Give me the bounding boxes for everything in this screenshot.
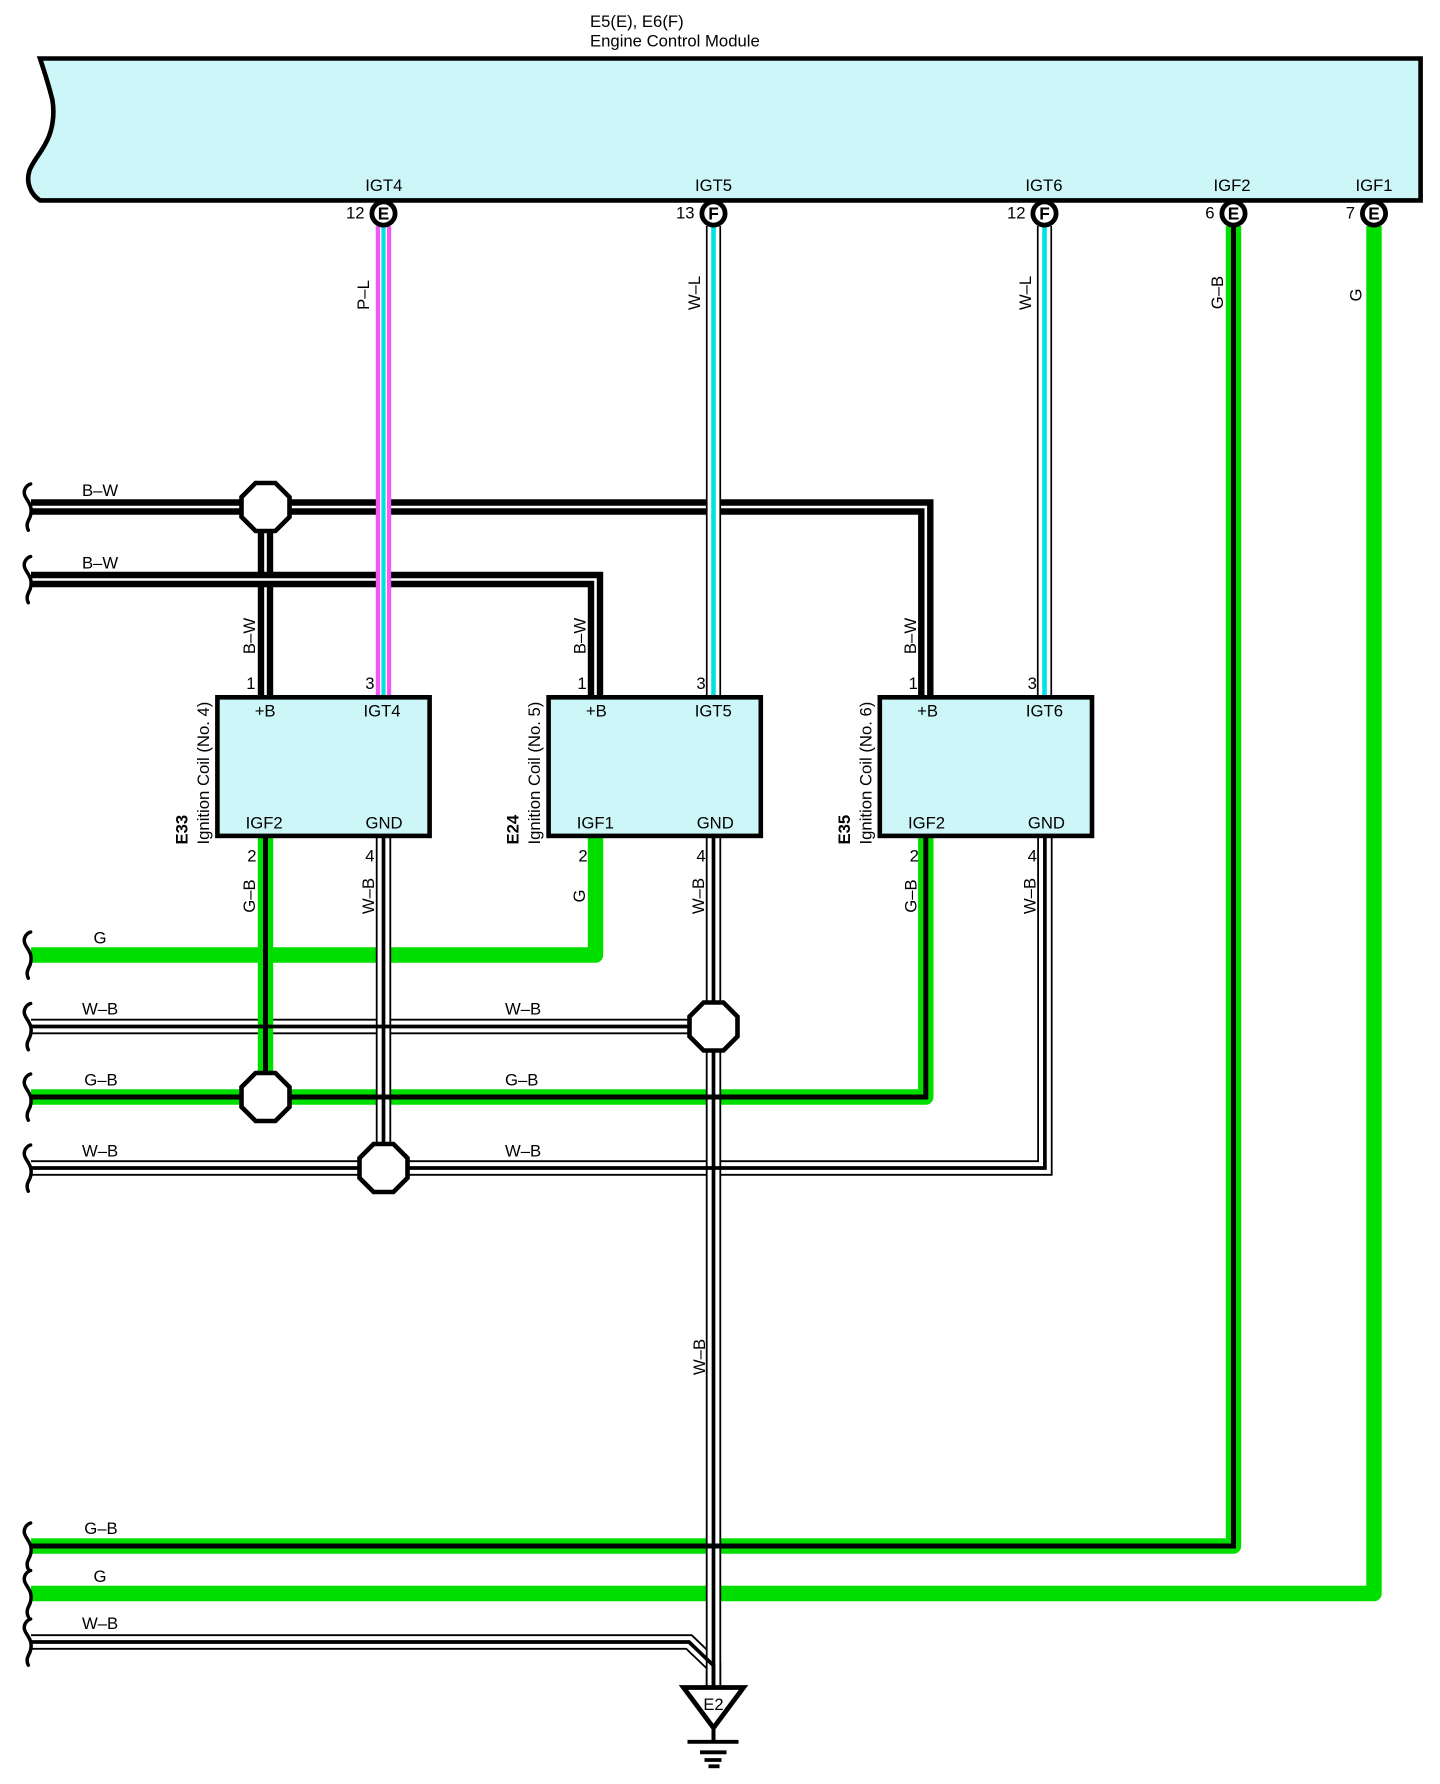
svg-text:G: G: [94, 929, 107, 948]
svg-text:G–B: G–B: [84, 1519, 117, 1538]
svg-text:12: 12: [1007, 203, 1026, 222]
junction octagon on B-W bus 1: [242, 483, 290, 531]
svg-text:IGT5: IGT5: [695, 702, 732, 721]
svg-text:6: 6: [1205, 203, 1214, 222]
svg-text:W–L: W–L: [685, 276, 704, 310]
ground bar 2: [700, 1750, 727, 1754]
svg-text:G–B: G–B: [240, 879, 259, 912]
svg-text:3: 3: [365, 674, 374, 693]
ignition coil E33 box: [217, 697, 429, 836]
svg-text:P–L: P–L: [354, 280, 373, 310]
wire G bus from ignition coil No.5 IGF1: [31, 834, 596, 955]
break symbol at left of wire y=1097: [24, 1074, 31, 1120]
svg-text:IGF1: IGF1: [1356, 176, 1393, 195]
svg-text:B–W: B–W: [901, 618, 920, 654]
svg-text:GND: GND: [697, 813, 734, 832]
svg-text:E: E: [378, 204, 390, 224]
svg-text:IGT6: IGT6: [1026, 702, 1063, 721]
junction octagon on W-B bus 2: [360, 1144, 408, 1192]
svg-text:W–B: W–B: [690, 1339, 709, 1375]
svg-text:12: 12: [346, 203, 365, 222]
svg-text:G: G: [570, 890, 589, 903]
svg-text:E: E: [1228, 204, 1240, 224]
svg-text:1: 1: [246, 674, 255, 693]
center stripe G-B coil No.4 IGF2: [263, 834, 268, 1097]
ECM connector circle F pin 13: [702, 202, 725, 225]
svg-text:W–L: W–L: [1016, 276, 1035, 310]
svg-text:E: E: [1368, 204, 1380, 224]
ECM connector circle E pin 7: [1362, 202, 1385, 225]
center stripe G-B ECM/bottom: [31, 226, 1234, 1546]
svg-text:1: 1: [577, 674, 586, 693]
svg-text:IGF1: IGF1: [577, 813, 614, 832]
wire W-L from ECM IGT5: [706, 226, 721, 700]
ground bar 3: [705, 1758, 722, 1762]
wire P-L from ECM IGT4: [376, 226, 391, 700]
svg-text:E2: E2: [703, 1696, 723, 1714]
svg-text:2: 2: [247, 847, 256, 866]
ground bar 1: [688, 1740, 739, 1744]
junction octagon on W-B bus 1: [690, 1003, 738, 1051]
svg-text:IGF2: IGF2: [908, 813, 945, 832]
svg-text:W–B: W–B: [505, 1000, 541, 1019]
wire W-B bottom bus with jog to ground: [31, 1642, 714, 1686]
center stripe W-L IGT6: [1042, 226, 1047, 700]
svg-text:13: 13: [676, 203, 695, 222]
ignition coil E24 box: [549, 697, 761, 836]
ground bar 4: [709, 1764, 720, 1768]
break symbol at left of wire y=579.5: [24, 557, 31, 603]
center stripe W-B bus 1: [31, 1025, 714, 1029]
svg-text:3: 3: [696, 674, 705, 693]
ignition coil E35 box: [880, 697, 1092, 836]
svg-text:+B: +B: [586, 702, 607, 721]
svg-text:B–W: B–W: [82, 554, 118, 573]
svg-text:IGF2: IGF2: [1214, 176, 1251, 195]
break symbol at left of wire y=1593.5: [24, 1571, 31, 1617]
svg-text:IGT6: IGT6: [1025, 176, 1062, 195]
break symbol at left of wire y=1642: [24, 1619, 31, 1665]
ECM connector circle E pin 6: [1222, 202, 1245, 225]
break symbol at left of wire y=507: [24, 484, 31, 530]
svg-text:F: F: [1039, 204, 1050, 224]
ECM connector circle F pin 12: [1033, 202, 1056, 225]
break symbol at left of wire y=1026.5: [24, 1004, 31, 1050]
wire B-W bus 1 (to ignition coil No.6 +B): [31, 507, 926, 700]
svg-text:2: 2: [910, 847, 919, 866]
svg-text:IGT4: IGT4: [364, 702, 401, 721]
wire W-B from ignition coil No.5 GND down to ground E2: [706, 834, 721, 1687]
svg-text:IGT5: IGT5: [695, 176, 732, 195]
svg-text:4: 4: [365, 847, 374, 866]
svg-text:G–B: G–B: [1208, 276, 1227, 309]
svg-text:E33: E33: [173, 815, 192, 845]
svg-text:4: 4: [1028, 847, 1037, 866]
center stripe P-L: [380, 226, 387, 700]
center stripe G-B bus: [31, 834, 926, 1097]
svg-text:W–B: W–B: [689, 878, 708, 914]
svg-text:3: 3: [1028, 674, 1037, 693]
svg-text:GND: GND: [366, 813, 403, 832]
svg-text:Ignition Coil (No. 5): Ignition Coil (No. 5): [525, 702, 544, 845]
svg-text:4: 4: [696, 847, 705, 866]
break symbol at left of wire y=1546: [24, 1523, 31, 1569]
center stripe W-L IGT5: [711, 226, 716, 700]
svg-text:+B: +B: [917, 702, 938, 721]
wire W-L from ECM IGT6: [1037, 226, 1052, 700]
svg-text:W–B: W–B: [505, 1142, 541, 1161]
svg-text:2: 2: [578, 847, 587, 866]
svg-text:+B: +B: [255, 702, 276, 721]
center stripe W-B coil No.5 GND: [712, 834, 716, 1687]
svg-text:G–B: G–B: [902, 879, 921, 912]
svg-text:F: F: [708, 204, 719, 224]
wire G-B bus (to ignition coil No.6 IGF2): [31, 834, 926, 1097]
svg-text:G–B: G–B: [84, 1071, 117, 1090]
wire B-W drop to ignition coil No.4 +B: [258, 507, 273, 700]
svg-text:Engine Control Module: Engine Control Module: [590, 32, 760, 51]
svg-text:IGT4: IGT4: [365, 176, 402, 195]
wire B-W bus 2 (to ignition coil No.5 +B): [31, 580, 596, 701]
svg-text:W–B: W–B: [359, 878, 378, 914]
svg-text:G: G: [94, 1567, 107, 1586]
svg-text:B–W: B–W: [571, 618, 590, 654]
wire G-B from ECM IGF2 down and across bottom: [31, 226, 1234, 1546]
svg-text:E5(E), E6(F): E5(E), E6(F): [590, 12, 684, 31]
svg-text:E35: E35: [835, 815, 854, 845]
wire W-B bus 1: [31, 1019, 714, 1034]
svg-text:W–B: W–B: [82, 1142, 118, 1161]
wire G-B from ignition coil No.4 IGF2: [258, 834, 273, 1097]
ground E2 triangle: [684, 1688, 744, 1728]
svg-text:7: 7: [1346, 203, 1355, 222]
center stripe W-B bus 2: [31, 834, 1045, 1168]
svg-text:W–B: W–B: [1021, 878, 1040, 914]
wire W-B from ignition coil No.4 GND: [376, 834, 391, 1168]
svg-text:Ignition Coil (No. 4): Ignition Coil (No. 4): [194, 702, 213, 845]
ECM connector circle E pin 12: [372, 202, 395, 225]
center stripe W-B bottom bus: [31, 1642, 714, 1686]
break symbol at left of wire y=955: [24, 932, 31, 978]
svg-text:W–B: W–B: [82, 1614, 118, 1633]
svg-text:IGF2: IGF2: [246, 813, 283, 832]
svg-text:Ignition Coil (No. 6): Ignition Coil (No. 6): [856, 702, 875, 845]
svg-text:GND: GND: [1028, 813, 1065, 832]
ECM module box E5(E)/E6(F): [28, 59, 1420, 201]
break symbol at left of wire y=1168: [24, 1145, 31, 1191]
ground stem: [712, 1728, 716, 1740]
center stripe W-B coil No.4 GND: [382, 834, 386, 1168]
wire W-B bus 2 (to ignition coil No.6 GND): [31, 834, 1045, 1168]
wire G from ECM IGF1 down and across bottom: [31, 226, 1374, 1594]
junction octagon on G-B bus: [242, 1073, 290, 1121]
svg-text:B–W: B–W: [240, 618, 259, 654]
svg-text:G: G: [1347, 289, 1366, 302]
svg-text:E24: E24: [504, 814, 523, 844]
svg-text:1: 1: [909, 674, 918, 693]
svg-text:W–B: W–B: [82, 1000, 118, 1019]
svg-text:B–W: B–W: [82, 481, 118, 500]
svg-text:G–B: G–B: [505, 1071, 538, 1090]
